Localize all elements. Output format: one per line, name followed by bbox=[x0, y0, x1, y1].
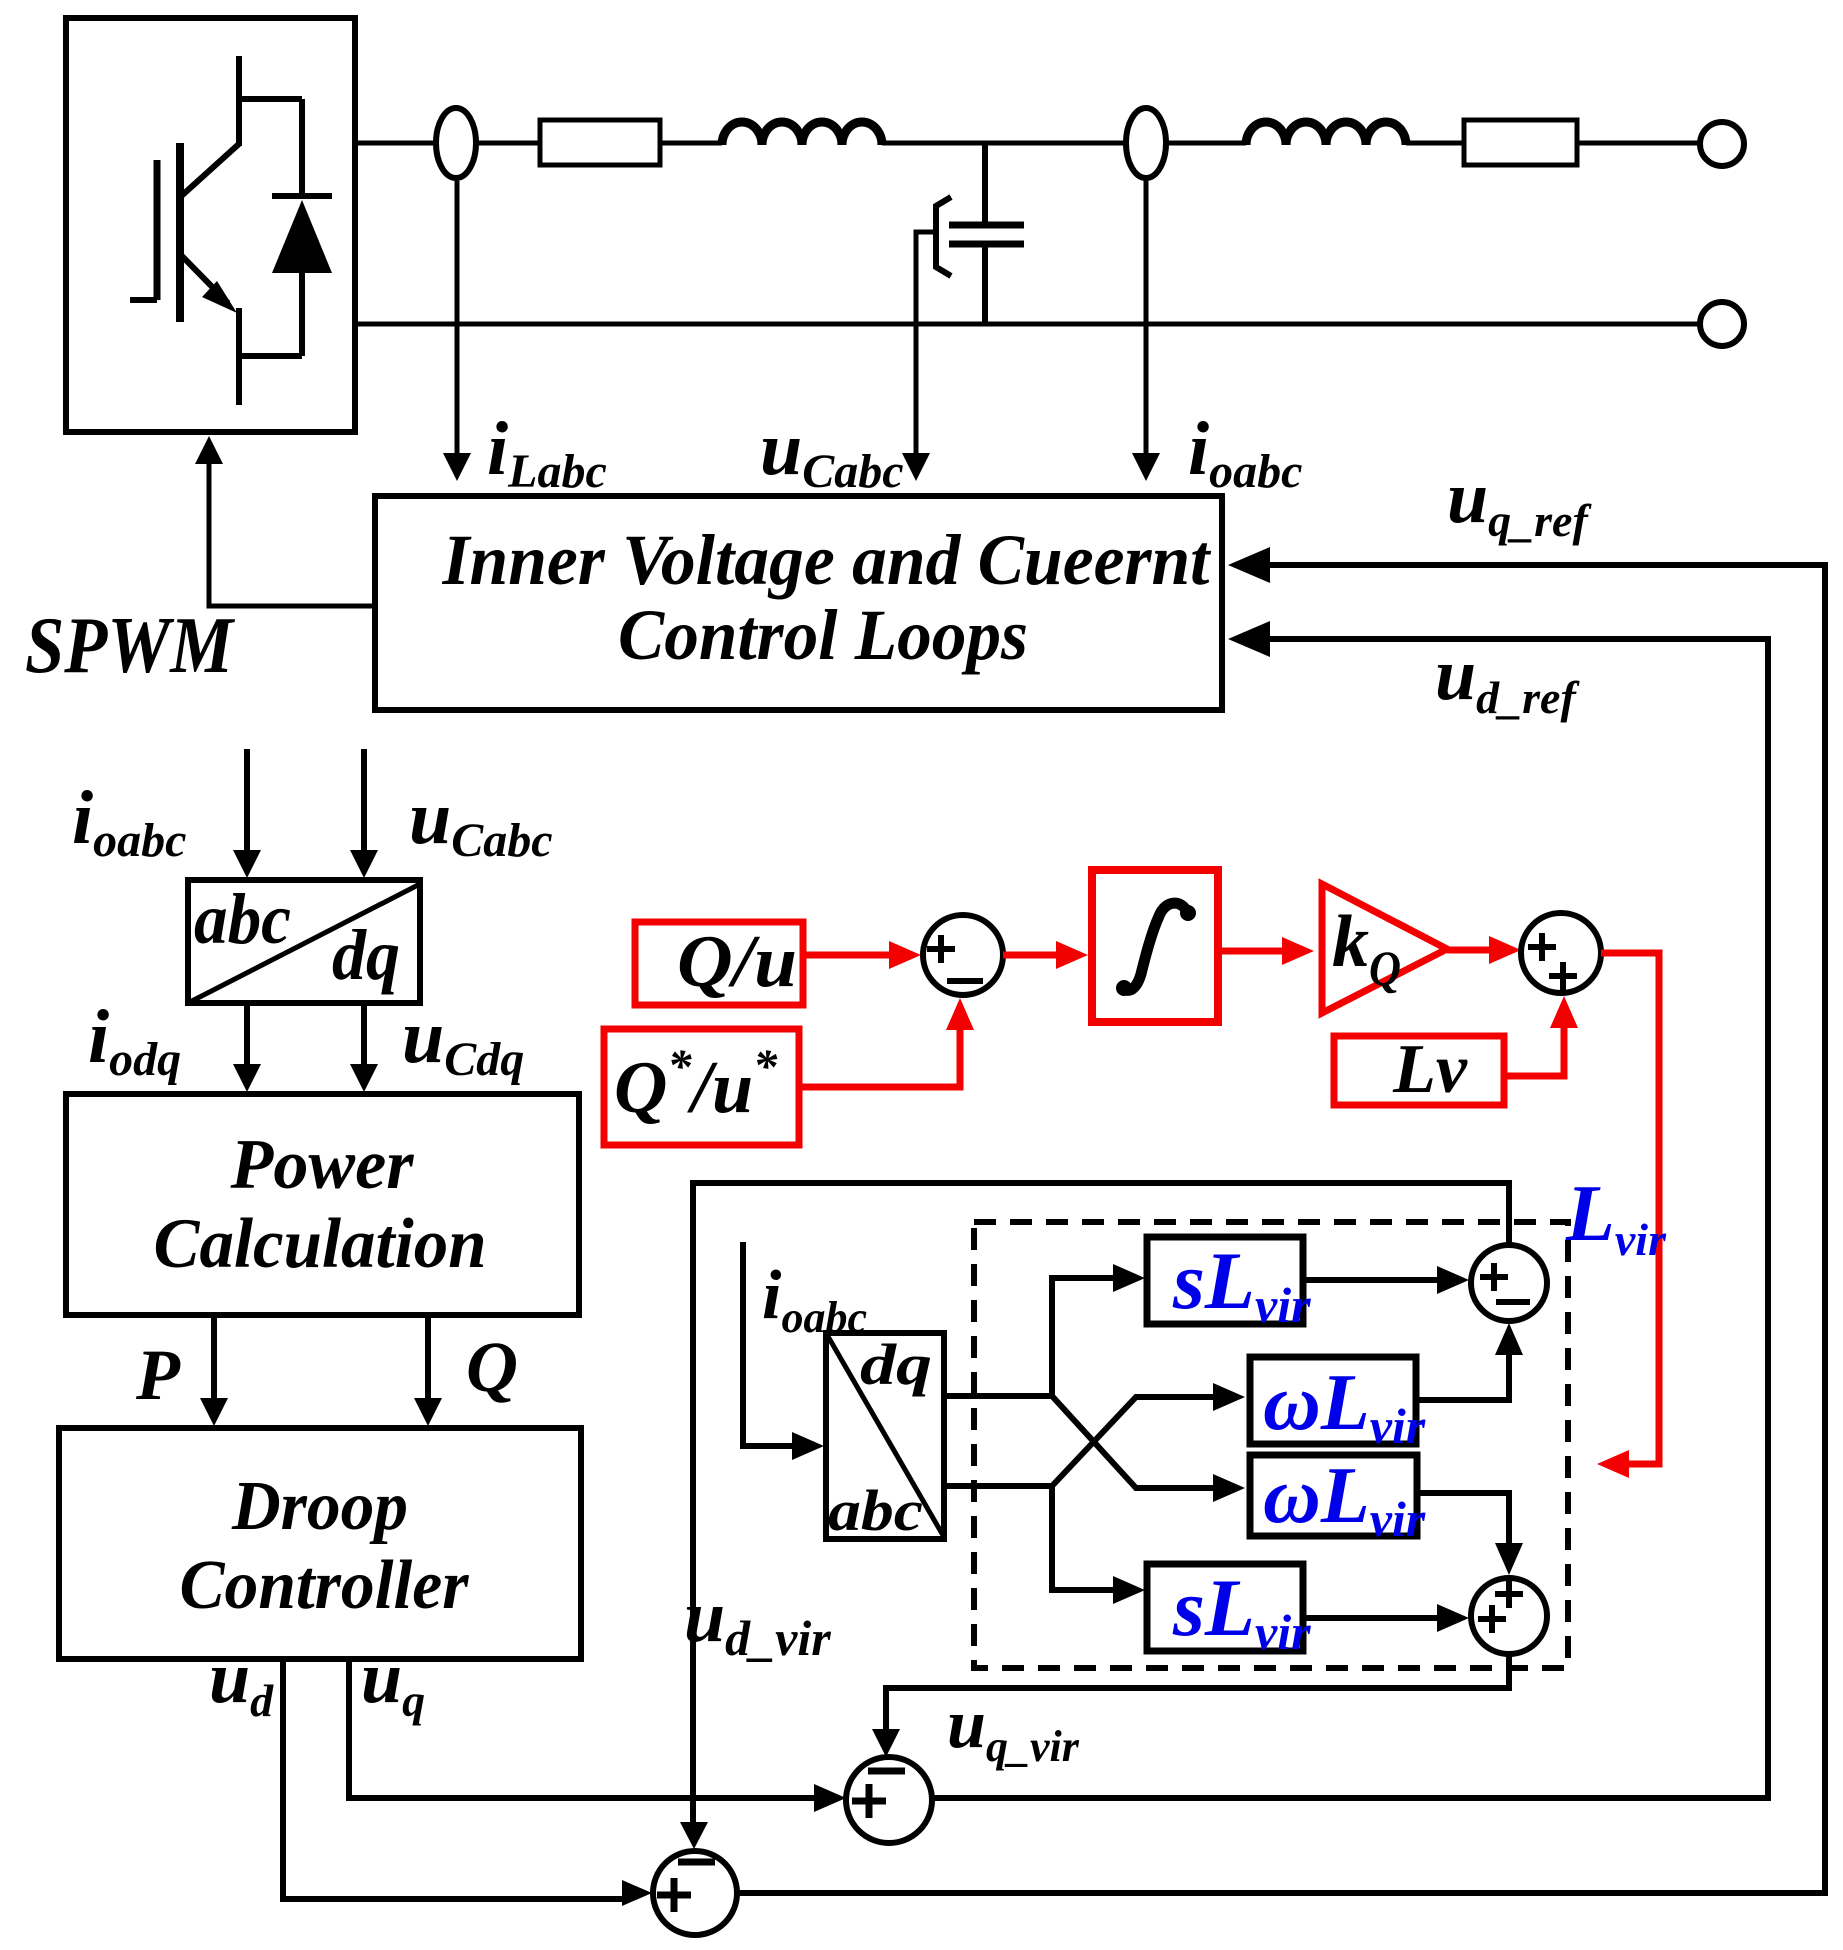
wire sLvir bottom to sum4 bbox=[1303, 1615, 1441, 1621]
Q/u box bbox=[635, 922, 803, 1005]
sum3 minus bbox=[1496, 1299, 1530, 1305]
sum2 plus bottom bbox=[1549, 962, 1577, 990]
svg-text:uq: uq bbox=[361, 1637, 425, 1726]
IGBT emitter arrowhead bbox=[202, 281, 237, 313]
wire sLvir top to sum3 bbox=[1303, 1277, 1441, 1283]
svg-text:Control Loops: Control Loops bbox=[618, 595, 1028, 675]
sum5 minus bbox=[868, 1768, 905, 1775]
svg-text:uCdq: uCdq bbox=[402, 995, 524, 1086]
wire bbox=[1406, 141, 1464, 146]
svg-text:P: P bbox=[135, 1335, 181, 1415]
voltage probe bracket bbox=[936, 197, 951, 276]
svg-text:ioabc: ioabc bbox=[762, 1257, 867, 1342]
current sensor CT1 bbox=[436, 108, 476, 178]
svg-text:abc: abc bbox=[828, 1478, 923, 1543]
u_d wire to sum bbox=[283, 1659, 625, 1899]
svg-text:Lv: Lv bbox=[1392, 1031, 1468, 1108]
wire omega1 to sum3 bbox=[1416, 1353, 1509, 1400]
svg-text:kQ: kQ bbox=[1332, 901, 1401, 996]
gain triangle kQ bbox=[1322, 884, 1447, 1013]
integrator box bbox=[1092, 870, 1218, 1022]
sum2 plus top bbox=[1528, 933, 1556, 961]
svg-text:uq_ref: uq_ref bbox=[1447, 457, 1592, 546]
i_odq arrow bbox=[244, 1003, 250, 1066]
inductor L2 bbox=[1246, 122, 1406, 145]
u_q wire to sum bbox=[349, 1659, 818, 1798]
wire bottom bus bbox=[355, 322, 1701, 327]
P arrow bbox=[211, 1315, 217, 1400]
svg-text:Calculation: Calculation bbox=[154, 1205, 487, 1283]
u_d_ref feedback wire bbox=[932, 639, 1768, 1798]
wire d cross diagonal bbox=[1052, 1396, 1217, 1488]
sum6 minus bbox=[678, 1859, 715, 1866]
wire top bus from inverter bbox=[355, 141, 540, 146]
droop controller box bbox=[59, 1428, 581, 1659]
wire bbox=[1167, 141, 1246, 146]
svg-text:ud: ud bbox=[209, 1637, 274, 1726]
sum1 circle bbox=[923, 915, 1003, 995]
svg-text:iodq: iodq bbox=[88, 995, 181, 1086]
capacitor C1 bbox=[949, 143, 1024, 324]
Q arrow bbox=[425, 1315, 431, 1400]
sum3 circle bbox=[1471, 1245, 1547, 1321]
red wire gain to sum2 bbox=[1447, 947, 1491, 954]
svg-text:uCabc: uCabc bbox=[760, 407, 904, 498]
terminal node bottom bbox=[1700, 302, 1744, 346]
sLvir box top bbox=[1147, 1237, 1303, 1324]
svg-text:Q/u: Q/u bbox=[677, 921, 797, 1003]
wire sum3 output top loop to u_d_vir bbox=[693, 1183, 1509, 1840]
svg-text:Droop: Droop bbox=[231, 1468, 408, 1545]
red wire Qref to sum1 bbox=[799, 1028, 960, 1087]
u_Cabc input arrow to abc/dq bbox=[361, 749, 367, 852]
red wire integrator to gain bbox=[1218, 948, 1284, 955]
wire sum4 output to u_q_vir bbox=[886, 1654, 1509, 1747]
power calculation box bbox=[66, 1094, 579, 1315]
svg-text:ioabc: ioabc bbox=[1188, 407, 1302, 498]
svg-text:SPWM: SPWM bbox=[25, 602, 236, 690]
inductor L1 bbox=[722, 122, 882, 145]
svg-text:Q: Q bbox=[466, 1327, 518, 1407]
wire omega2 to sum4 bbox=[1417, 1493, 1509, 1545]
wire q-axis out bbox=[944, 1486, 1117, 1590]
svg-text:Q*/u*: Q*/u* bbox=[614, 1040, 778, 1129]
svg-text:iLabc: iLabc bbox=[487, 407, 607, 498]
inner control box bbox=[375, 496, 1222, 710]
svg-text:dq: dq bbox=[860, 1332, 932, 1397]
svg-text:Inner Voltage and Cueernt: Inner Voltage and Cueernt bbox=[442, 520, 1212, 600]
sum5 plus bbox=[852, 1784, 886, 1818]
svg-text:ud_vir: ud_vir bbox=[684, 1576, 831, 1666]
IGBT Q1 bbox=[130, 56, 302, 405]
svg-text:abc: abc bbox=[194, 879, 291, 959]
u_Cdq arrow bbox=[361, 1003, 367, 1066]
sum4 plus top bbox=[1495, 1580, 1523, 1608]
omega Lvir box 2 bbox=[1250, 1455, 1417, 1536]
red wire Q/u to sum1 bbox=[803, 952, 891, 959]
wire bbox=[1577, 141, 1701, 146]
abc/dq transform box bbox=[188, 880, 420, 1003]
dashed virtual impedance box bbox=[974, 1222, 1568, 1668]
current sensor CT2 bbox=[1126, 108, 1166, 178]
wire bbox=[882, 141, 1126, 146]
omega Lvir box 1 bbox=[1250, 1357, 1416, 1444]
svg-text:ioabc: ioabc bbox=[72, 776, 186, 867]
sum1 minus sign bbox=[947, 978, 983, 984]
sum2 circle bbox=[1521, 913, 1601, 993]
i_oabc input arrow to abc/dq bbox=[244, 749, 250, 852]
red wire Lvir down bbox=[1601, 953, 1659, 1464]
sum6 plus bbox=[657, 1878, 691, 1912]
sum1 plus sign bbox=[927, 935, 955, 963]
sum3 plus bbox=[1480, 1263, 1508, 1291]
svg-text:Controller: Controller bbox=[180, 1547, 470, 1624]
u_Cabc measurement wire bbox=[916, 232, 933, 455]
i_oabc measurement wire bbox=[1144, 181, 1149, 455]
sum5 circle u_q_vir bbox=[846, 1757, 932, 1843]
resistor R1 bbox=[540, 120, 660, 165]
diode D1 bbox=[272, 99, 332, 356]
svg-text:ud_ref: ud_ref bbox=[1435, 634, 1580, 723]
SPWM wire bbox=[209, 450, 375, 606]
svg-text:Lvir: Lvir bbox=[1565, 1170, 1667, 1265]
sLvir box bottom bbox=[1147, 1564, 1303, 1651]
Lv box bbox=[1334, 1036, 1504, 1105]
wire q cross diagonal bbox=[1052, 1397, 1217, 1486]
sum4 plus left bbox=[1478, 1605, 1506, 1633]
wire d-axis out bbox=[944, 1278, 1117, 1396]
svg-text:uCabc: uCabc bbox=[409, 776, 553, 867]
dq/abc transform box bbox=[826, 1333, 944, 1539]
integral sign bbox=[1122, 903, 1187, 990]
i_Labc measurement wire bbox=[455, 181, 460, 455]
red wire Lv to sum2 bbox=[1504, 1026, 1564, 1076]
sum6 circle u_d bbox=[653, 1851, 737, 1935]
terminal node top bbox=[1700, 122, 1744, 166]
svg-text:dq: dq bbox=[332, 915, 400, 995]
sum4 circle bbox=[1471, 1578, 1547, 1654]
i_oabc wire into dq/abc bbox=[743, 1242, 796, 1446]
svg-text:uq_vir: uq_vir bbox=[947, 1686, 1080, 1771]
u_q_ref feedback wire bbox=[738, 565, 1825, 1893]
wire bbox=[660, 141, 722, 146]
resistor R2 bbox=[1464, 120, 1577, 165]
inverter box bbox=[66, 18, 355, 432]
red wire sum1 to integrator bbox=[1003, 952, 1058, 959]
svg-text:Power: Power bbox=[230, 1126, 415, 1204]
Q*/u* box bbox=[604, 1029, 799, 1145]
